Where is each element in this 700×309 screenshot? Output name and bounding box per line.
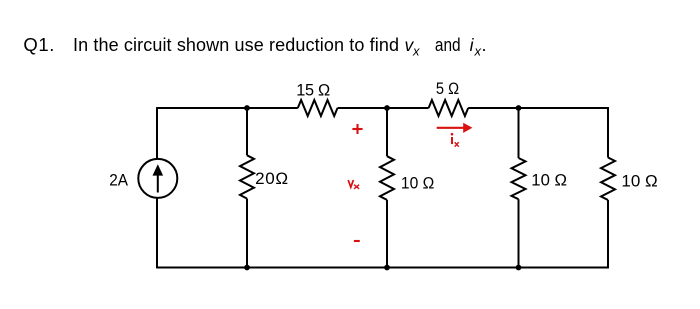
wire branch vx 10ohm lower lead xyxy=(386,200,388,268)
svg-text:x: x xyxy=(474,44,482,59)
resistor third 10 ohm zigzag xyxy=(512,158,526,199)
wire top rail left segment xyxy=(157,107,298,109)
node dot top right xyxy=(516,105,522,111)
node dot bottom middle xyxy=(384,265,390,271)
wire left rail upper xyxy=(156,107,158,159)
svg-text:5 Ω: 5 Ω xyxy=(436,80,459,98)
wire right rail lower xyxy=(607,200,609,268)
wire left rail lower xyxy=(156,198,158,268)
wire top rail middle segment xyxy=(338,107,429,109)
label ix letter i xyxy=(451,133,454,136)
wire branch R 20ohm upper lead xyxy=(246,108,248,155)
wire top rail right segment xyxy=(468,107,609,109)
resistor 15 ohm zigzag xyxy=(298,100,338,116)
svg-text:In the circuit shown use reduc: In the circuit shown use reduction to fi… xyxy=(73,35,399,55)
svg-text:20Ω: 20Ω xyxy=(255,169,288,188)
wire branch R 20ohm lower lead xyxy=(246,199,248,268)
current source 2A circle xyxy=(138,159,177,198)
wire branch third 10ohm lower lead xyxy=(518,199,520,267)
minus sign vx polarity xyxy=(354,240,360,242)
node dot top left xyxy=(244,105,250,111)
wire bottom rail xyxy=(157,267,609,269)
svg-text:15 Ω: 15 Ω xyxy=(296,81,330,99)
wire branch vx 10ohm upper lead xyxy=(386,108,388,156)
resistor 20 ohm zigzag xyxy=(240,155,254,198)
svg-text:x: x xyxy=(412,44,420,59)
label ix subscript x xyxy=(455,142,459,147)
svg-text:10 Ω: 10 Ω xyxy=(401,173,434,192)
svg-text:10 Ω: 10 Ω xyxy=(621,172,657,191)
resistor vx 10 ohm zigzag xyxy=(380,156,394,200)
plus sign vx polarity xyxy=(352,128,362,130)
svg-text:and: and xyxy=(435,35,461,55)
svg-text:Q1.: Q1. xyxy=(23,34,54,55)
svg-text:2A: 2A xyxy=(109,171,128,189)
label vx subscript x xyxy=(354,185,359,189)
node dot top middle xyxy=(384,105,390,111)
label vx letter v xyxy=(348,180,353,187)
wire right rail upper xyxy=(607,107,609,157)
ix current arrow xyxy=(437,127,464,129)
current source arrow xyxy=(153,164,164,192)
node dot bottom left xyxy=(244,265,250,271)
resistor 5 ohm zigzag xyxy=(429,100,469,116)
node dot bottom right xyxy=(516,265,522,271)
svg-text:.: . xyxy=(482,35,487,55)
resistor right 10 ohm zigzag xyxy=(601,158,615,201)
svg-text:10 Ω: 10 Ω xyxy=(531,170,567,189)
wire branch third 10ohm upper lead xyxy=(518,108,520,158)
